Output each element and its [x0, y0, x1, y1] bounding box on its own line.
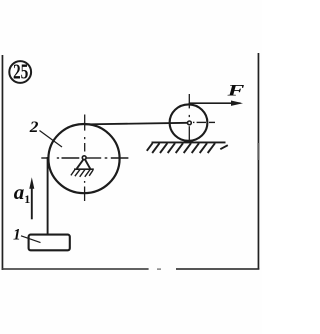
wire rope from big pulley top to small pulley — [84, 123, 188, 125]
svg-text:1: 1 — [24, 192, 30, 206]
wire rope from big pulley left down to block 1 — [47, 157, 49, 235]
leader line for label 2 — [40, 131, 63, 148]
svg-text:a: a — [14, 180, 24, 204]
centerline vertical of pulley 2 — [84, 115, 86, 202]
frame left border line — [2, 55, 4, 270]
centerline horizontal of small pulley (right side) — [193, 121, 215, 123]
frame bottom border line — [2, 268, 149, 270]
pulley (small, top right) — [170, 104, 208, 140]
acceleration arrow a1 — [31, 186, 33, 219]
leader line for label 1 — [21, 236, 41, 243]
centerline vertical of small pulley — [188, 94, 190, 140]
pulley 2 (big) — [48, 124, 119, 193]
svg-text:2: 2 — [29, 118, 39, 136]
problem number badge circle 25 — [9, 61, 31, 83]
support hatching — [71, 170, 93, 177]
force F arrow — [189, 102, 241, 104]
ground hatching — [147, 143, 228, 153]
ground line under small pulley — [152, 141, 226, 143]
frame right border line — [258, 53, 260, 270]
svg-text:25: 25 — [13, 60, 28, 83]
pin axle of pulley 2 — [82, 156, 86, 160]
svg-text:F: F — [226, 81, 244, 99]
centerline horizontal of pulley 2 — [41, 157, 128, 159]
support base line — [74, 168, 94, 170]
fixed pivot support triangle under pulley 2 axle — [77, 160, 91, 169]
block 1 (load) — [29, 235, 70, 251]
pin axle of small pulley — [188, 121, 192, 125]
svg-text:1: 1 — [13, 226, 21, 243]
